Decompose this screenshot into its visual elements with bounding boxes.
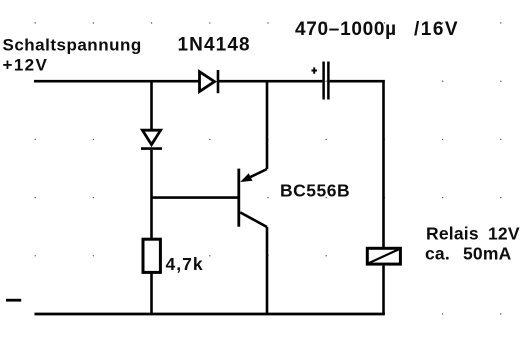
diode D1 1N4148 [200,70,219,93]
resistor R1 4,7k [143,239,160,272]
svg-text:Schaltspannung: Schaltspannung [3,35,142,54]
wire +12V input rail to D1 anode [34,80,199,83]
relay K1 coil [367,248,400,264]
wire Q1 collector to 0V rail [266,227,269,315]
svg-text:ca.: ca. [425,244,450,264]
wire D2 cathode to base node and resistor top [150,150,153,239]
wire base node to Q1 base [152,196,239,199]
wire C1 to right rail corner [330,81,384,247]
wire +12V junction to D2 anode [150,81,153,129]
value label Relais 12V ca. 50mA [425,224,520,264]
svg-text:4,7k: 4,7k [166,254,204,274]
svg-text:Relais: Relais [426,224,479,244]
svg-text:BC556B: BC556B [280,180,350,200]
svg-text:50mA: 50mA [463,244,512,264]
polarity mark + [312,67,318,73]
net label Schaltspannung +12V [3,35,142,74]
wire D1 cathode to C1 positive plate [219,80,322,83]
svg-text:+12V: +12V [3,56,49,75]
svg-text:470–1000µ: 470–1000µ [295,19,397,40]
terminal minus mark [6,299,21,302]
svg-text:12V: 12V [488,224,520,244]
wire R1 bottom to 0V rail [150,273,153,315]
wire 0V rail bottom [35,313,385,316]
transistor Q1 BC556B PNP [239,169,267,227]
svg-text:1N4148: 1N4148 [178,35,251,56]
junction Q1 emitter branch [266,81,269,169]
capacitor C1 electrolytic [324,62,329,100]
wire relay K1 to 0V rail [382,266,385,315]
svg-text:/16V: /16V [414,19,459,40]
diode D2 pointing down [141,130,162,148]
